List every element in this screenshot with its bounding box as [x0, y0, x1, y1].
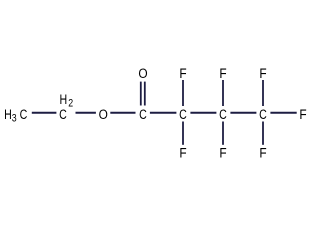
svg-text:F: F: [299, 106, 306, 122]
svg-text:F: F: [219, 145, 226, 161]
svg-text:3: 3: [12, 113, 17, 125]
svg-text:F: F: [259, 145, 266, 161]
svg-text:F: F: [219, 65, 226, 81]
svg-text:F: F: [259, 65, 266, 81]
svg-text:C: C: [20, 106, 28, 122]
svg-text:O: O: [138, 65, 147, 81]
svg-text:C: C: [59, 106, 67, 122]
svg-text:F: F: [179, 65, 186, 81]
svg-text:H: H: [4, 106, 12, 122]
svg-text:O: O: [99, 106, 108, 122]
svg-text:2: 2: [68, 97, 73, 109]
svg-text:C: C: [179, 106, 187, 122]
svg-text:H: H: [59, 91, 67, 107]
svg-text:C: C: [259, 106, 267, 122]
svg-text:F: F: [179, 145, 186, 161]
svg-text:C: C: [219, 106, 227, 122]
svg-text:C: C: [139, 106, 147, 122]
